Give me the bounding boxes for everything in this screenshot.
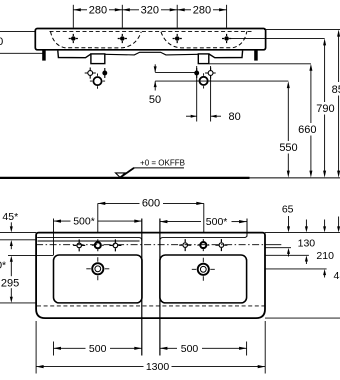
tap hole symbol 1 (front): [69, 34, 78, 43]
divider / bowl edge line right-bowl-left (full extension): [159, 219, 161, 356]
extension lines 600 dim: [98, 203, 204, 232]
reference line 660 (drain box bottom): [209, 63, 311, 65]
tap hole symbol 2 (front): [118, 34, 127, 43]
extension line 1300 left: [35, 321, 37, 374]
basin top reference line to 850 dim: [264, 29, 340, 31]
dim 130: [298, 220, 316, 265]
dim 500* right: [160, 216, 247, 228]
svg-text:280: 280: [89, 5, 107, 17]
left reference line lower (to cut dimension): [0, 52, 45, 54]
left reference line upper (to cut dimension): [0, 30, 35, 32]
fixing hole left-bowl right (filled dot): [103, 68, 107, 78]
dim 280 right: [177, 5, 226, 17]
level mark line: [134, 167, 185, 169]
rim inner edge right section: [160, 219, 247, 241]
dim 600: [98, 197, 204, 209]
extension line 1300 right: [264, 321, 266, 374]
plan tap hole left-bowl right cross: [109, 239, 121, 251]
PLAN VIEW SECTION: [0, 197, 340, 373]
dim 280 left: [73, 5, 122, 17]
svg-text:1300: 1300: [146, 361, 170, 373]
plan tap hole right-bowl left cross: [179, 239, 191, 251]
plan tap hole left-bowl left cross: [73, 239, 85, 251]
tap hole symbol 3 (front): [173, 34, 182, 43]
floor line (thick): [0, 177, 250, 179]
fixing hole right-bowl left (filled dot): [195, 68, 199, 78]
fixing hole right-bowl right (circle cross): [205, 68, 216, 79]
top dimension line ticks: [73, 5, 226, 28]
svg-text:550: 550: [279, 142, 297, 154]
svg-text:500*: 500*: [73, 216, 95, 228]
drain box right: [198, 54, 209, 64]
reference line waste holes (50 dim lower, to 550 dim): [155, 80, 288, 82]
underside pocket left: [58, 51, 91, 58]
waste hole left bowl (plan): [86, 257, 109, 280]
underside pocket right: [209, 51, 242, 58]
bowl top edge extension right (130 dim reference): [265, 254, 309, 256]
svg-text:500*: 500*: [206, 216, 228, 228]
rim step line right end + 790 reference line: [230, 37, 325, 39]
right leg: [254, 50, 258, 61]
floor line (thin continuation): [250, 177, 340, 179]
dim 295: [1, 256, 19, 303]
svg-text:45*: 45*: [2, 211, 18, 223]
dim 500 bottom left: [54, 343, 142, 355]
hidden front apron line (dashed): [37, 305, 265, 307]
front edge extension right: [265, 317, 340, 319]
svg-text:80: 80: [229, 111, 241, 123]
FRONT VIEW SECTION: [0, 5, 340, 178]
right bowl hidden outline (dashed): [161, 32, 247, 48]
65 dim reference line right: [265, 247, 291, 249]
dim 850 (clipped at right edge): [332, 30, 340, 178]
hidden rim line (dashed): [50, 30, 252, 32]
rim inner edge left section: [37, 238, 142, 241]
svg-text:500: 500: [181, 343, 199, 355]
svg-text:850: 850: [332, 84, 340, 96]
svg-text:+0 = OKFFB: +0 = OKFFB: [140, 158, 185, 167]
bowl top edge extension left (295 dim reference): [8, 255, 54, 257]
underside middle profile: [105, 52, 198, 55]
svg-text:280: 280: [193, 5, 211, 17]
svg-text:0*: 0*: [0, 260, 6, 272]
svg-text:50: 50: [149, 94, 161, 106]
bowl bottom edge extension left (295 dim reference): [0, 302, 36, 304]
svg-text:295: 295: [1, 277, 19, 289]
dim 320: [122, 5, 177, 17]
svg-text:500: 500: [89, 343, 107, 355]
back edge extension left: [0, 232, 36, 234]
svg-text:210: 210: [316, 250, 334, 262]
waste hole left bowl (front): [90, 74, 105, 89]
left leg: [42, 50, 46, 61]
plan tap hole left-bowl middle (drilled): [92, 239, 104, 251]
svg-text:0: 0: [0, 36, 3, 48]
left bowl hidden outline (dashed): [51, 32, 142, 48]
plan tap hole right-bowl right cross: [215, 239, 227, 251]
dim 500* left: [54, 216, 142, 228]
dim 80: [186, 66, 241, 123]
reference line fixing holes (50 dim upper): [155, 71, 195, 73]
svg-text:480: 480: [334, 270, 340, 282]
tap hole centerline (dash-dot): [36, 244, 265, 246]
svg-text:130: 130: [298, 238, 316, 250]
dim 480 (clipped at right edge): [334, 217, 340, 282]
svg-text:660: 660: [298, 124, 316, 136]
cut-off dimension text 0*: [0, 260, 6, 272]
waste hole right bowl (front): [196, 73, 211, 88]
dim 1300: [36, 361, 265, 373]
rim edge extension left (45 dim reference): [0, 239, 37, 241]
dim 50: [149, 64, 161, 106]
divider / bowl edge line left-bowl-right (full extension): [141, 219, 143, 356]
left bowl outline: [54, 255, 143, 303]
dim 790: [316, 38, 334, 177]
centerline extension right (65 dim reference): [265, 244, 281, 246]
tap hole symbol 4 (front): [222, 34, 231, 43]
dim 660: [298, 64, 316, 178]
svg-text:600: 600: [142, 197, 160, 209]
level mark triangle: [116, 168, 135, 178]
rim second step line left section: [38, 240, 140, 242]
svg-text:320: 320: [141, 5, 159, 17]
dim 500 bottom right: [160, 343, 247, 355]
svg-text:790: 790: [316, 103, 334, 115]
dim 550: [279, 81, 297, 178]
dim 45*: [2, 211, 18, 249]
drain centerline extension right (210 dim reference): [265, 268, 327, 270]
basin body outline (front elevation): [35, 29, 265, 50]
fixing hole left-bowl left (circle cross): [85, 68, 96, 79]
dim 65: [282, 203, 294, 256]
drain box left: [91, 54, 105, 64]
level mark text +0 = OKFFB: [140, 158, 185, 167]
plan tap hole right-bowl middle (drilled): [197, 239, 209, 251]
cut-off dimension text 0: [0, 36, 3, 48]
plan outer ceramic outline: [36, 233, 265, 319]
back edge extension right: [265, 232, 340, 234]
waste hole right bowl (plan): [192, 258, 215, 281]
extension ticks left bowl left edge: [53, 219, 55, 356]
right bowl outline: [160, 255, 247, 303]
extension ticks right bowl right edge: [246, 219, 248, 356]
svg-text:65: 65: [282, 203, 294, 215]
dim 210: [316, 220, 334, 278]
